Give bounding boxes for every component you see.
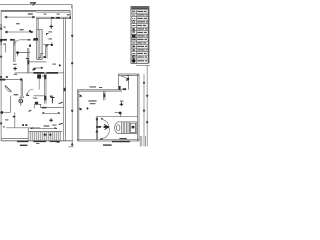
- tub left rounded end: [115, 122, 119, 134]
- dimension line top: [0, 5, 72, 9]
- wall dark seg y107.5: [42, 107, 47, 109]
- wall thick seg y79: [0, 79, 5, 81]
- wall horizontal y62: [28, 61, 46, 63]
- wall closet vertical x5: [4, 43, 6, 52]
- window arrow left wall d: [0, 76, 2, 78]
- window hatch: [28, 39, 37, 41]
- legend sym row15 filled circle: [132, 59, 135, 62]
- wall vertical x45 upper: [46, 44, 47, 58]
- window arrow left wall c: [0, 56, 2, 58]
- tub treads: [122, 122, 130, 133]
- dim dash top b: [57, 14, 60, 15]
- wall upper vertical x37: [37, 18, 38, 29]
- legend sym row9b: [134, 39, 136, 40]
- dim arrows B c: [143, 109, 145, 111]
- legend sym row12: [132, 50, 135, 51]
- dim foot bottom: [68, 146, 73, 148]
- bath label dashes: [14, 94, 19, 95]
- legend sym row14 cross: [132, 56, 135, 59]
- hatch x45 upper: [44, 75, 46, 79]
- hatch bottom wall seg2: [33, 140, 46, 142]
- dimension line stairs: [30, 128, 56, 130]
- ceiling fan F1: [13, 67, 17, 71]
- legend column divider: [135, 10, 137, 64]
- dim arrow r2: [71, 62, 73, 64]
- tub inner box: [130, 123, 135, 132]
- room arrowheads: [42, 112, 60, 113]
- dim text room1: [28, 13, 33, 14]
- wall junction dark: [34, 38, 39, 41]
- tub oval: [117, 125, 120, 131]
- stair box inner vertical: [128, 76, 130, 89]
- wall segment thin: [20, 39, 27, 41]
- bath door arrow dark: [104, 124, 107, 129]
- wall vertical x10: [10, 96, 12, 113]
- wall bottom outer: [1, 140, 73, 142]
- fan B1 label: [120, 101, 123, 102]
- wall balcony bottom double: [36, 17, 70, 18]
- dark blob x36 y102: [35, 102, 38, 104]
- legend sym row7: [132, 31, 135, 32]
- dim lines B bottom short: [140, 136, 145, 146]
- dim arrow r4: [71, 143, 73, 145]
- stair box arrow: [126, 78, 129, 81]
- fan F2 stem: [50, 19, 52, 25]
- label first floor plan: [103, 144, 112, 145]
- wall horizontal y112: [0, 111, 11, 113]
- wall vertical x21 bath: [21, 80, 22, 96]
- dim text lw a: [3, 27, 5, 28]
- wall corner L x34: [34, 104, 41, 108]
- wall top-right notch: [69, 11, 71, 18]
- light L3: [19, 99, 23, 103]
- dim text room1 lower: [20, 29, 24, 30]
- dim text stairs: [44, 125, 50, 126]
- stair shaft U caps: [37, 59, 43, 60]
- fan squiggle F3: [32, 68, 35, 70]
- light L3 label: [20, 97, 24, 98]
- legend text bars: [137, 11, 143, 12]
- dim arrows room1: [5, 16, 35, 18]
- wall bottom inner left: [1, 138, 28, 140]
- light L2: [51, 44, 53, 46]
- dimension tick center: [33, 4, 35, 6]
- fan F2 label: [48, 31, 52, 32]
- db label dashes: [42, 76, 45, 77]
- light L3 dot: [20, 100, 21, 101]
- wall interior vertical x14: [14, 40, 15, 62]
- wall right double: [64, 18, 66, 141]
- plan B wall bottom double: [77, 140, 139, 141]
- plan B dim text top: [90, 86, 96, 87]
- wall top inner: [36, 11, 70, 13]
- wall thick segs y73: [33, 72, 58, 74]
- text dash bath2: [5, 119, 8, 120]
- ceiling fan B1: [120, 102, 124, 106]
- window hatch balcony: [51, 17, 60, 19]
- stairs dark mark2: [49, 134, 51, 136]
- window hatch right wall: [63, 88, 65, 91]
- dim text right dots: [69, 16, 71, 19]
- hatch bottom wall seg1: [17, 140, 28, 142]
- legend table outer: [131, 6, 148, 63]
- dark marks y124 b: [25, 124, 27, 126]
- socket bracket a: [47, 33, 49, 35]
- wall left outer: [0, 11, 2, 142]
- bath door posts: [101, 119, 103, 139]
- wire J1: [34, 67, 41, 69]
- wire light L1: [18, 53, 31, 57]
- plan B wall left double: [77, 90, 78, 141]
- dim arrow r3: [71, 110, 73, 112]
- wall vertical x45 corridor: [45, 73, 46, 104]
- wall corner x120: [115, 112, 121, 117]
- legend sym row1: [132, 11, 135, 12]
- fan F4 label: [52, 125, 56, 126]
- wall horizontal y128: [6, 127, 40, 129]
- junction dot J2: [59, 64, 61, 66]
- text dash corridor: [33, 98, 37, 99]
- label ground floor plan: [20, 145, 28, 146]
- ceiling fan F2: [49, 25, 53, 29]
- dimension line B top ext: [136, 65, 150, 67]
- stairs left edge: [27, 128, 29, 141]
- socket bracket b: [47, 45, 49, 47]
- label tick up: [57, 142, 60, 143]
- dimension line right of plan A: [71, 5, 73, 147]
- bath wall thick y127 b: [104, 126, 110, 128]
- fan F2 label2: [48, 38, 52, 39]
- stair box dn text: [127, 75, 130, 76]
- tub bottom: [119, 133, 137, 135]
- distribution board dark box: [37, 74, 41, 78]
- light L2 stem: [51, 43, 53, 44]
- tub top: [119, 121, 137, 123]
- dim text lw b: [3, 44, 5, 45]
- dimension text 33ft: [30, 2, 36, 4]
- legend sym row6: [133, 29, 135, 30]
- room arrows y113: [42, 112, 60, 114]
- dim arrow r1: [71, 35, 73, 37]
- legend sym row9: [132, 39, 134, 40]
- plan B interior wall x96: [96, 117, 97, 140]
- fan mark left wall a: [79, 95, 81, 97]
- door arc hall: [15, 40, 21, 46]
- bath door arc lower: [101, 128, 109, 139]
- legend sym row13: [132, 53, 135, 55]
- wall interior vertical x28: [28, 48, 29, 73]
- door arc bath: [5, 85, 12, 92]
- tub right end: [136, 122, 138, 134]
- dim arrows stairs: [30, 127, 56, 130]
- label bed dashes: [16, 23, 19, 24]
- plan B interior wall y117: [96, 116, 137, 118]
- legend sym row5: [132, 25, 135, 27]
- door leaf corridor dark: [27, 93, 30, 96]
- legend sym row2: [132, 14, 135, 16]
- stairs treads: [30, 131, 60, 140]
- wall horizontal y44: [43, 44, 52, 46]
- dimension line room1: [5, 16, 35, 18]
- hatch x45 lower: [44, 96, 46, 100]
- dark mark y112: [1, 111, 3, 114]
- legend sym row11: [133, 46, 135, 47]
- dim arrow x96 a: [96, 118, 98, 120]
- dim arrows B d: [146, 121, 148, 123]
- wall dark hatch x28: [27, 60, 29, 64]
- window arrow left wall a: [0, 24, 2, 30]
- fan F1 label: [13, 64, 17, 65]
- window arrow left wall b: [0, 40, 2, 45]
- wall horizontal y107.5: [41, 107, 64, 109]
- bottom text above wall: [119, 138, 126, 139]
- shaft mark b: [29, 45, 31, 47]
- tub dark mark: [132, 126, 135, 129]
- fan F1 label2: [14, 74, 17, 75]
- dim text lw e: [3, 126, 5, 127]
- wall top second line: [1, 11, 36, 13]
- window arrow left wall e: [0, 123, 2, 125]
- wall corner x40 y104: [40, 104, 42, 108]
- bottom wall hatch B: [112, 141, 130, 143]
- dim arrows room1 lower: [5, 31, 33, 33]
- arrow mark x29: [29, 110, 32, 111]
- wall segment: [10, 39, 15, 41]
- junction dot J1: [41, 67, 43, 69]
- dim arrows B a: [143, 82, 145, 84]
- stair shaft step caps: [38, 53, 43, 57]
- wall top: [1, 10, 70, 12]
- hatch bottom wall seg3: [50, 140, 60, 142]
- dimension line room1 lower: [5, 31, 33, 33]
- switch S2: [50, 97, 54, 103]
- label mid dashes: [52, 64, 56, 65]
- legend sym row8 fan dark: [132, 35, 135, 37]
- label tick B: [100, 139, 103, 140]
- wall vertical x15: [14, 112, 16, 128]
- bedroom label dashes: [88, 100, 96, 101]
- door arc corridor: [27, 89, 33, 95]
- arrow right wall y103: [58, 102, 62, 103]
- legend sym row10: [132, 42, 135, 44]
- stair box door arc: [121, 76, 128, 84]
- legend sym row4: [133, 21, 135, 23]
- legend right double border: [148, 6, 150, 63]
- plan B wall top double: [77, 90, 122, 91]
- stair box top double: [118, 74, 139, 75]
- bath door arc upper: [101, 119, 109, 127]
- symbol above wall y79: [6, 76, 8, 78]
- fan mark left wall b: [79, 108, 81, 110]
- db wire down: [38, 79, 40, 90]
- dark marks y124 a: [22, 124, 24, 126]
- bedroom label dashes2: [90, 103, 96, 104]
- stair box dark seg b: [123, 88, 127, 90]
- stair shaft treads light: [40, 30, 43, 59]
- wall horizontal y95.8: [33, 95, 44, 97]
- plan B interior wall x104: [104, 91, 105, 100]
- door leaf: [14, 40, 16, 46]
- stairs dark marks: [44, 134, 47, 136]
- dim dash top a: [44, 14, 47, 15]
- legend header bar: [132, 7, 148, 9]
- dimension line B right outer: [146, 66, 148, 147]
- legend sym row14 circle cross: [132, 55, 135, 58]
- dark blob x120: [119, 112, 122, 114]
- bath wall thick y127: [96, 126, 101, 128]
- light L1: [16, 51, 19, 54]
- door leaf bath: [5, 85, 11, 91]
- label tick: [36, 143, 39, 144]
- stair shaft treads: [37, 29, 43, 59]
- plan B wall right double: [138, 74, 139, 141]
- stairs top line: [28, 130, 62, 132]
- arrow right wall y124: [59, 123, 63, 124]
- wall interior horizontal y40: [0, 39, 7, 41]
- dark mark wall end: [20, 78, 22, 80]
- ceiling fan F4: [49, 118, 53, 122]
- stair box dark seg a: [119, 86, 121, 90]
- dim text right top: [67, 14, 70, 15]
- window hatch x104: [103, 94, 105, 98]
- switch dashes s1: [26, 58, 29, 59]
- wall horizontal y73 corridor: [15, 72, 64, 74]
- legend sym row3: [132, 18, 135, 20]
- stair box left wall: [117, 74, 119, 90]
- dark mark x44: [43, 56, 46, 58]
- light L3 stem: [20, 103, 22, 106]
- bedroom mark small: [86, 107, 88, 109]
- wall horizontal y79 bath: [0, 79, 22, 81]
- switch S2 mark: [50, 96, 53, 97]
- shaft mark a: [29, 30, 31, 32]
- dim arrow x96 b: [96, 131, 98, 133]
- dimension line B right inner: [143, 74, 145, 146]
- plan B dim text top2: [99, 87, 102, 88]
- dim arrows B b: [146, 95, 148, 97]
- dark mark x14: [13, 116, 15, 118]
- legend row lines: [131, 10, 148, 59]
